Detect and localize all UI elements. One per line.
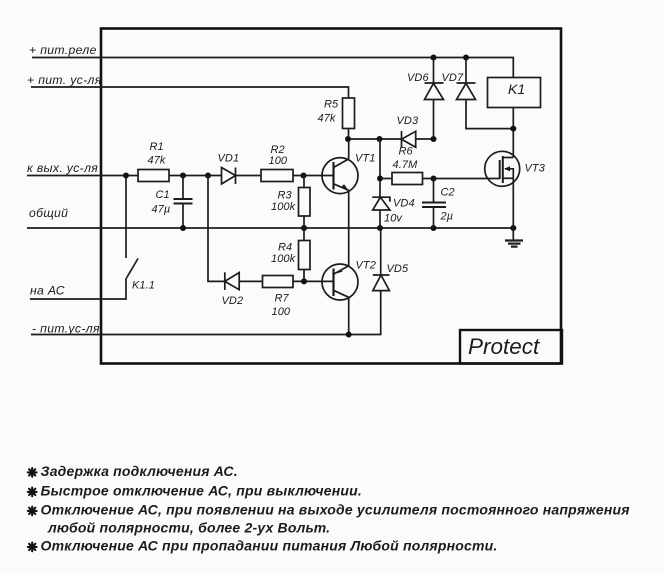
svg-text:47k: 47k [318,113,336,125]
node junction R4 bottom VT2 base [301,278,307,284]
wire общий bus [27,227,513,229]
svg-text:47µ: 47µ [152,204,171,216]
ground [505,241,523,247]
net общий label [29,206,68,220]
label R6 [399,146,414,158]
Protect title box [460,330,562,364]
node junction K1 VD7 [510,126,516,132]
relay contact K1.1 [126,176,138,279]
schematic frame [101,29,561,364]
label K1 [508,81,525,97]
node junction C1 top [180,173,186,179]
svg-text:к вых. ус-ля: к вых. ус-ля [27,161,98,175]
label R7 [275,293,290,305]
resistor R2 [261,170,293,182]
label R2 value 100 [269,155,288,167]
svg-text:47k: 47k [148,155,166,167]
net +пит.ус-ля label [27,73,102,87]
label VD5 [387,263,409,275]
label R5 value 47k [318,113,336,125]
svg-text:VT2: VT2 [356,260,376,272]
label VD2 [222,295,244,307]
svg-text:+ пит.реле: + пит.реле [29,43,97,57]
label VD1 [218,153,240,165]
node junction C2 bottom [431,225,437,231]
wire +пит.ус-ля bus [31,87,349,98]
diode VD3 [402,131,416,148]
svg-text:Отключение АС при пропадании п: Отключение АС при пропадании питания Люб… [41,538,498,554]
svg-text:10v: 10v [384,213,403,225]
node junction K1.1 tap [123,173,129,179]
label VT2 [356,260,376,272]
capacitor C2 [422,179,446,229]
svg-text:100: 100 [272,306,291,318]
svg-text:100: 100 [269,155,288,167]
resistor R5 [343,98,355,129]
bullet note 3 [28,502,630,536]
bullet note 1 [28,463,238,479]
resistor R4 [299,228,311,281]
label R2 [271,144,285,156]
node junction VD2 branch [205,173,211,179]
svg-text:VD1: VD1 [218,153,240,165]
label R5 [324,99,339,111]
node junction R3 top [301,173,307,179]
node junction R6 left [377,176,383,182]
node junction VT2 collector [346,332,352,338]
svg-text:R5: R5 [324,99,339,111]
label C2 [441,187,455,199]
node junction ground [510,225,516,231]
svg-text:VT1: VT1 [355,153,375,165]
wire VD2 branch vertical [208,176,225,282]
label VD4 value 10v [384,213,403,225]
node junction R6 right gate [431,176,437,182]
svg-text:VD7: VD7 [442,72,464,84]
svg-text:100k: 100k [271,201,296,213]
label VT1 [355,153,375,165]
resistor R7 [263,276,294,288]
label VD7 [442,72,464,84]
net +пит.реле label [29,43,97,57]
label R7 value 100 [272,306,291,318]
svg-text:R3: R3 [278,190,293,202]
label R3 [278,190,293,202]
diode VD6 [425,58,444,140]
label C1 [156,189,170,201]
wire R2 to VT1 base [293,175,334,177]
svg-text:C1: C1 [156,189,170,201]
node junction VD6 top [431,55,437,61]
net к вых. ус-ля label [27,161,98,175]
svg-text:VD5: VD5 [387,263,409,275]
svg-text:- пит.ус-ля: - пит.ус-ля [32,322,100,336]
wire VD2 to R7 [239,280,262,282]
wire R6 row [380,178,500,180]
wire R6 bus [379,139,381,197]
label VD6 [407,72,429,84]
svg-text:любой полярности, более 2-ух В: любой полярности, более 2-ух Вольт. [47,520,330,536]
label VT3 [525,163,546,175]
svg-text:+ пит. ус-ля: + пит. ус-ля [27,73,102,87]
svg-text:R7: R7 [275,293,290,305]
svg-text:VD3: VD3 [397,115,419,127]
wire VT3 source to ground [512,178,514,240]
svg-text:Отключение АС, при появлении н: Отключение АС, при появлении на выходе у… [41,502,630,518]
wire VT1 collector up [348,139,350,159]
label C1 value 47µ [152,204,171,216]
svg-text:4.7M: 4.7M [393,159,419,171]
svg-text:K1.1: K1.1 [132,280,155,292]
resistor R6 [392,173,423,185]
node junction R3 bottom R4 top [301,225,307,231]
svg-text:VD2: VD2 [222,295,244,307]
svg-text:VD6: VD6 [407,72,429,84]
wire -пит.ус-ля bus [31,291,381,335]
node junction VD4 top branch [377,136,383,142]
label R1 [150,141,164,153]
bullet note 2 [28,483,362,499]
label R1 value 47k [148,155,166,167]
capacitor C1 [174,176,193,229]
wire R1 to VD1 [169,175,222,177]
transistor VT1 NPN [322,158,358,194]
label VD3 [397,115,419,127]
svg-text:VT3: VT3 [525,163,546,175]
bullet note 4 [28,538,498,554]
label R4 value 100k [271,253,296,265]
wire K1 bottom to VT3 drain [512,108,514,158]
svg-text:VD4: VD4 [393,198,415,210]
label K1.1 [132,280,155,292]
svg-text:R6: R6 [399,146,414,158]
label R6 value 4.7M [393,159,419,171]
wire line VD3 bus [348,138,434,140]
svg-text:Задержка подключения АС.: Задержка подключения АС. [41,463,238,479]
label C2 value 2µ [440,211,454,223]
svg-text:C2: C2 [441,187,455,199]
diode VD7 [457,58,514,129]
svg-text:R1: R1 [150,141,164,153]
node junction VD7 top [463,55,469,61]
resistor R3 [299,176,311,229]
label VD4 [393,198,415,210]
svg-text:R4: R4 [278,242,292,254]
wire на АС with switch lead [30,278,126,299]
resistor R1 [138,170,169,182]
svg-text:100k: 100k [271,253,296,265]
node junction R5 VT1 collector [345,136,351,142]
relay coil K1 [488,78,541,108]
zener diode VD4 [372,197,390,228]
diode VD2 [225,272,239,290]
svg-text:2µ: 2µ [440,211,454,223]
wire VT1 emitter to VT2 emitter [348,190,350,265]
transistor VT2 PNP [322,264,358,300]
node junction VD6 bottom [431,136,437,142]
wire VD1 to R2 [236,175,262,177]
svg-text:Быстрое отключение АС, при вык: Быстрое отключение АС, при выключении. [41,483,363,499]
wire к вых. ус-ля bus left [27,175,138,177]
node junction VD4 bottom [377,225,383,231]
wire +пит.реле bus [32,58,513,78]
svg-text:общий: общий [29,206,68,220]
svg-text:на АС: на АС [30,284,65,298]
label Protect [468,334,541,359]
net на АС label [30,284,65,298]
label R3 value 100k [271,201,296,213]
label R4 [278,242,292,254]
svg-text:Protect: Protect [468,334,541,359]
wire VT2 collector down [348,297,350,334]
transistor VT3 MOSFET [485,151,520,186]
diode VD1 [222,168,236,185]
node junction C1 bottom [180,225,186,231]
svg-text:K1: K1 [508,81,525,97]
net -пит.ус-ля label [32,322,100,336]
wire R5 bottom [348,129,350,140]
wire R7 to VT2 base [293,280,334,282]
diode VD5 [373,228,390,291]
